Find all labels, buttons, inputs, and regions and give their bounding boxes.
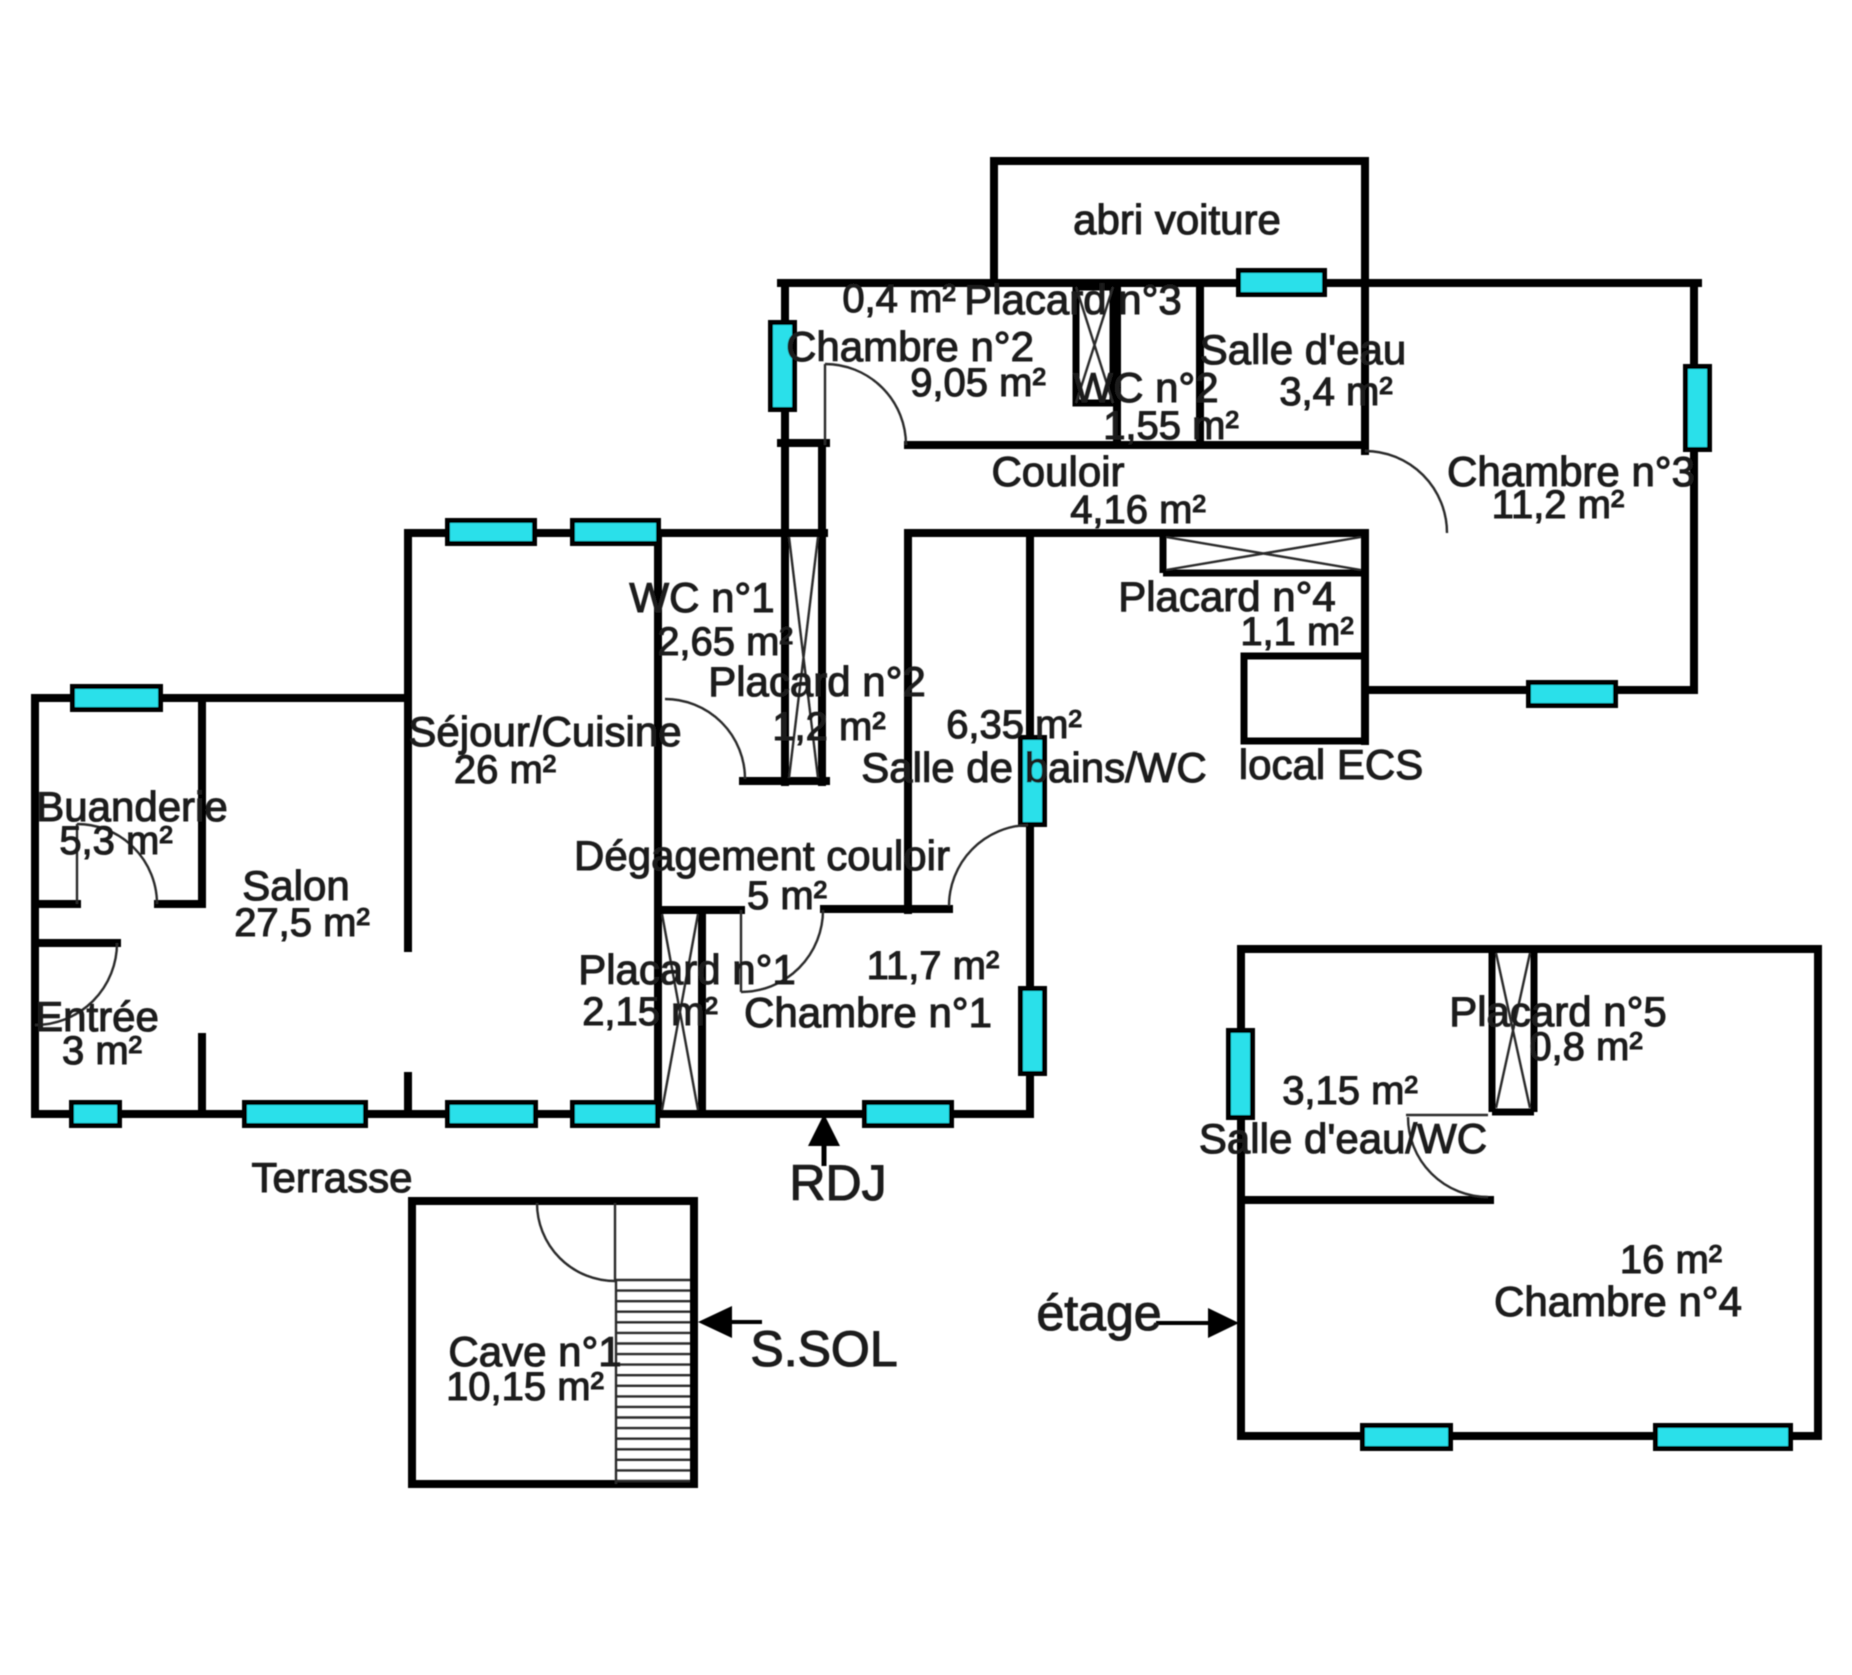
window Chambre n3 bottom [1529,683,1616,706]
door cave leaf [614,1203,616,1281]
svg-text:4,16 m²: 4,16 m² [1070,488,1206,532]
door Chambre n1 arc [741,910,823,992]
window Terrasse bottom [245,1103,366,1126]
stairs left edge [615,1280,617,1484]
placard n3 closet box [1076,287,1113,403]
svg-text:Dégagement couloir: Dégagement couloir [574,832,950,879]
wall: Entree top stub [35,939,117,947]
wall: Buanderie right wall [198,698,206,904]
window etage left wall [1229,1031,1253,1118]
svg-text:étage: étage [1036,1285,1161,1341]
cave outer walls [412,1201,694,1484]
svg-text:Chambre n°4: Chambre n°4 [1494,1278,1742,1325]
svg-text:0,8 m²: 0,8 m² [1529,1025,1642,1069]
wall: Sejour top exterior wall [408,529,824,537]
window Salle de bains wall lower [1021,989,1045,1074]
svg-text:Placard n°2: Placard n°2 [708,658,926,705]
door Chambre n2 arc [825,364,906,445]
svg-text:11,7 m²: 11,7 m² [867,944,1000,988]
svg-text:RDJ: RDJ [789,1155,886,1211]
door Chambre n2 leaf [824,364,826,445]
wall: main top wall of house [781,279,1698,287]
svg-text:Salle de bains/WC: Salle de bains/WC [861,744,1207,791]
wall: placard n1 right wall [698,910,706,1114]
svg-text:5 m²: 5 m² [747,874,827,918]
wall: Chambre n3 right exterior wall [1690,283,1698,690]
window Chambre n1 bottom [865,1103,952,1126]
wall: right mid vertical below Chambre n3 door [1361,533,1369,741]
svg-text:5,3 m²: 5,3 m² [59,819,172,863]
window etage bottom right [1656,1426,1791,1449]
door Chambre n1 leaf [740,910,742,992]
placard n5 bottom wall [1492,1109,1534,1116]
svg-text:26 m²: 26 m² [454,748,556,792]
svg-text:Placard n°1: Placard n°1 [578,946,796,993]
arrow etage [1156,1308,1239,1338]
svg-text:11,2 m²: 11,2 m² [1492,483,1625,527]
window Chambre n2 left [771,323,795,410]
wall: Salle de bains / Chambre n1 right wall [1026,533,1034,1114]
svg-text:27,5 m²: 27,5 m² [234,901,370,945]
wall: left exterior wall [31,698,39,1114]
svg-text:3,4 m²: 3,4 m² [1279,370,1392,414]
wall: Buanderie bottom right segment [158,900,202,908]
svg-text:9,05 m²: 9,05 m² [910,361,1046,405]
svg-text:Salle d'eau: Salle d'eau [1200,326,1407,373]
window Sejour bottom right [573,1103,658,1126]
svg-text:Chambre n°1: Chambre n°1 [744,989,992,1036]
wall: Buanderie top exterior wall [35,694,408,702]
wall: main bottom exterior wall [35,1110,1030,1118]
wall: Sejour right wall (WC n1 left) [654,533,662,1114]
svg-text:1,55 m²: 1,55 m² [1103,404,1239,448]
wall: corridor top wall (Chambre n2 / WC n2 / Salle d'eau bottom) [908,441,1365,449]
wall: WC n2 / Salle d'eau divider [1196,283,1204,445]
local ECS box [1244,656,1365,741]
svg-text:1,1 m²: 1,1 m² [1240,610,1353,654]
svg-text:S.SOL: S.SOL [750,1321,897,1377]
door cave arc [537,1203,615,1281]
window Salle de bains wall upper [1021,738,1045,825]
svg-text:Terrasse: Terrasse [251,1154,412,1201]
wall: etage salle d'eau bottom wall [1241,1196,1490,1204]
wall: Chambre n2 bottom stub [781,439,826,447]
svg-text:3,15 m²: 3,15 m² [1282,1069,1418,1113]
svg-text:16 m²: 16 m² [1620,1238,1722,1282]
window Buanderie top [73,687,161,710]
wall: Degagement bottom left segment [658,906,741,914]
wall: Salle de bains left wall [904,533,912,910]
svg-text:1,2 m²: 1,2 m² [772,705,885,749]
door Buanderie arc [77,824,157,904]
wall: Chambre n2 left exterior wall [781,283,789,782]
wall: placard n2 right wall [818,443,826,782]
wall: Salle d'eau right wall upper [1361,283,1369,451]
door WC n1 arc [665,699,745,779]
svg-text:Salle d'eau/WC: Salle d'eau/WC [1199,1115,1487,1162]
arrow RDJ [808,1114,840,1166]
window Sejour bottom left [448,1103,536,1126]
wall: WC n1 / placard n2 bottom wall [743,777,826,785]
arrow S.SOL [698,1306,762,1338]
door Buanderie leaf [76,824,78,904]
placard n4 left edge [1160,533,1167,573]
wall: Salon / Sejour divider upper [404,533,412,948]
placard n3 X [1076,287,1113,403]
placard n4 bottom edge [1163,570,1365,577]
svg-text:10,15 m²: 10,15 m² [446,1365,604,1409]
svg-text:6,35 m²: 6,35 m² [946,703,1082,747]
wall: WC n2 left wall [1113,283,1121,445]
svg-text:local ECS: local ECS [1239,741,1423,788]
window etage bottom left [1363,1426,1451,1449]
svg-text:abri voiture: abri voiture [1073,196,1281,243]
window Sejour top right [573,521,659,544]
wall: Chambre n3 bottom exterior wall [1365,686,1694,694]
window Entree bottom [72,1103,120,1126]
wall: Chambre n1 top wall segment [824,905,949,913]
window Chambre n3 right [1686,367,1710,450]
door etage salle d'eau arc [1408,1117,1488,1197]
wall: Couloir bottom wall [908,529,1365,537]
placard n4 X [1166,537,1361,570]
svg-text:Placard n°3: Placard n°3 [964,276,1182,323]
carport abri voiture outline [994,161,1365,283]
placard n5 X [1496,953,1530,1108]
placard n1 X [662,914,698,1110]
placard n5 left wall [1489,949,1496,1112]
door etage salle d'eau leaf [1406,1114,1488,1116]
window top wall near carport [1239,271,1325,295]
wall: Buanderie bottom left segment [35,900,77,908]
door Salle de bains arc [949,825,1028,906]
svg-text:2,15 m²: 2,15 m² [582,990,718,1034]
wall: Entree right wall [198,1037,206,1114]
door Entree arc [35,943,117,1025]
svg-text:WC n°1: WC n°1 [629,574,774,621]
etage unit outer walls [1241,949,1818,1436]
window Sejour top left [448,521,535,544]
door Chambre n3 arc [1365,451,1447,533]
placard n2 X [789,537,818,778]
placard n5 right wall [1531,949,1538,1112]
wall: Salon / Sejour divider lower stub [404,1076,412,1114]
svg-text:3 m²: 3 m² [62,1029,142,1073]
svg-text:0,4 m²: 0,4 m² [842,277,955,321]
stairs treads [616,1280,690,1481]
